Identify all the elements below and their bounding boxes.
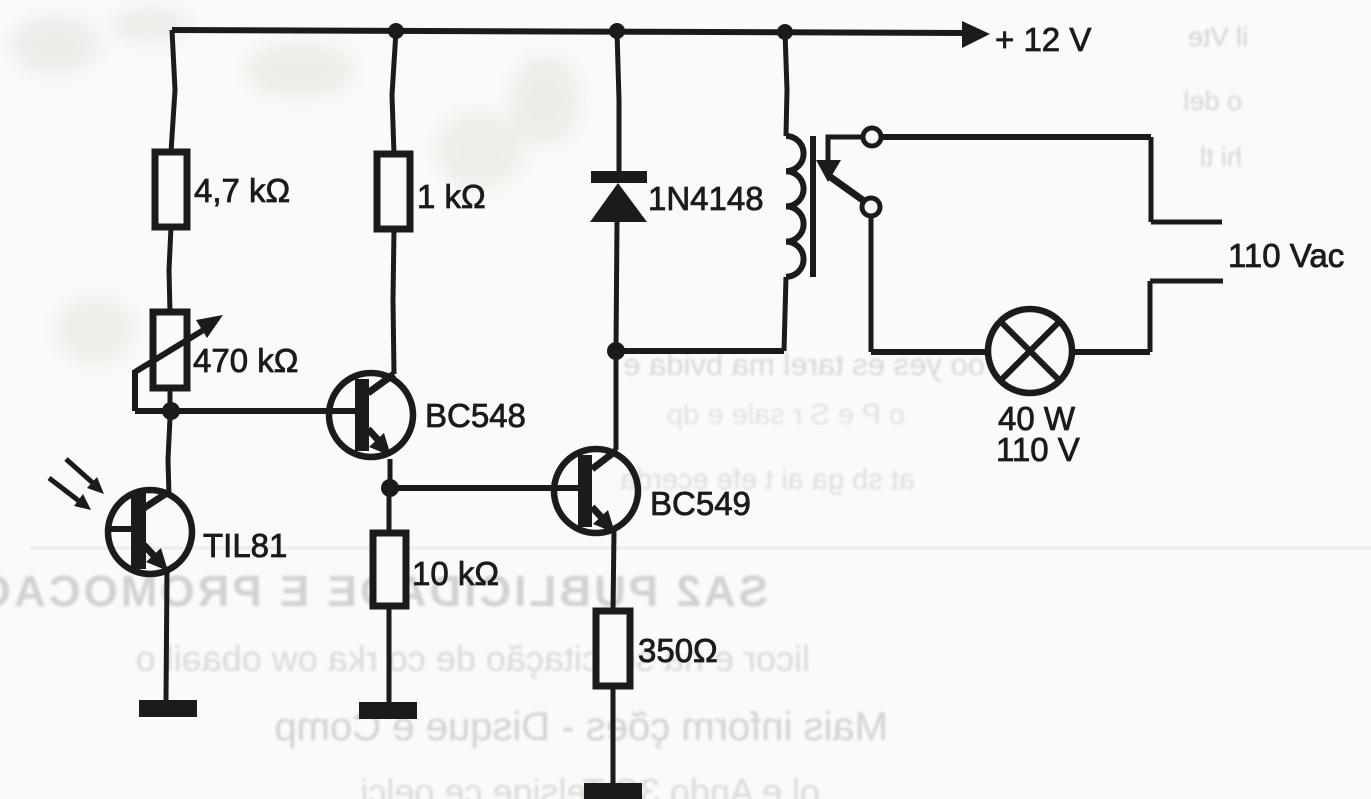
node junction rail/D1 [609, 23, 625, 39]
wire rail to relay coil [785, 32, 787, 136]
wire contact NO to right [881, 134, 1151, 140]
resistor R3 10k [373, 533, 406, 606]
wire relay coil to node C wire [784, 277, 786, 351]
svg-text:110 Vac: 110 Vac [1228, 237, 1344, 274]
wire D1 to node C [616, 222, 617, 351]
svg-text:o del: o del [1183, 86, 1242, 116]
resistor R2 1k [377, 154, 410, 229]
wire 110Vac upper terminal [1151, 220, 1222, 225]
resistor R4 350 [596, 611, 630, 686]
wire Q3 emitter to R4 [613, 531, 614, 611]
ground (R4) [584, 783, 642, 799]
relay K1 contact NO [863, 128, 881, 146]
resistor R1 4,7k [155, 152, 187, 227]
svg-text:il Vte: il Vte [1188, 22, 1248, 52]
svg-text:+ 12 V: + 12 V [995, 21, 1091, 58]
svg-text:BC549: BC549 [650, 485, 751, 522]
svg-text:110 V: 110 V [996, 431, 1080, 468]
svg-text:BC548: BC548 [425, 397, 526, 434]
wire node C to relay coil corner [616, 348, 784, 354]
wire to lamp [871, 349, 986, 355]
svg-text:4,7 kΩ: 4,7 kΩ [194, 172, 290, 209]
wire contact common down [869, 216, 874, 352]
svg-text:10 kΩ: 10 kΩ [412, 555, 499, 592]
node junction rail/relay coil [777, 24, 793, 40]
svg-text:1 kΩ: 1 kΩ [417, 178, 486, 215]
node junction rail/R2 [388, 23, 404, 39]
svg-text:TIL81: TIL81 [203, 527, 287, 564]
node C junction dot [607, 342, 625, 360]
+12V arrow terminal [962, 21, 990, 48]
wire node B to R3 [387, 494, 392, 533]
wire Q1 emitter to ground [166, 572, 167, 700]
svg-text:470 kΩ: 470 kΩ [193, 342, 298, 379]
wire right side up [1148, 281, 1153, 352]
node B junction dot [381, 479, 399, 497]
potentiometer P1 470k (rheostat) [135, 312, 223, 411]
wire rail to R2 [392, 31, 396, 154]
diode D1 1N4148 [590, 171, 647, 222]
node A junction dot [162, 402, 180, 420]
wire +12V supply rail [172, 30, 965, 33]
wire R4 to ground [611, 686, 616, 783]
wire R1 to P1 [169, 227, 171, 312]
relay K1 armature arm [816, 137, 864, 201]
wire 110Vac lower terminal [1150, 279, 1223, 284]
wire right side down [1149, 137, 1154, 222]
ground (Q1) [139, 700, 197, 717]
svg-text:hi tl: hi tl [1200, 142, 1242, 172]
wire rail to R1 [171, 30, 175, 152]
ground (R3) [359, 702, 417, 719]
wire Q2 emitter to node B [388, 459, 393, 488]
relay K1 core bar [810, 136, 816, 277]
relay K1 coil [786, 136, 804, 277]
svg-text:1N4148: 1N4148 [648, 180, 764, 217]
wire node A to Q2 base [135, 408, 356, 414]
lamp L1 [988, 309, 1072, 393]
transistor Q2 BC548 [329, 373, 413, 457]
wire node A to Q1 collector [168, 418, 170, 496]
wire R2 to Q2 collector [393, 229, 394, 374]
wire rail to D1 [617, 31, 619, 171]
svg-text:o P e S r sale e dp: o P e S r sale e dp [667, 399, 905, 431]
wire node B to Q3 base [390, 485, 578, 491]
relay K1 contact common [862, 198, 880, 216]
wire lamp to right [1074, 349, 1150, 355]
svg-text:350Ω: 350Ω [638, 632, 718, 669]
wire P1 bottom to node A [168, 388, 173, 411]
wire node C to Q3 collector [614, 351, 619, 450]
transistor Q3 BC549 [554, 449, 638, 533]
phototransistor Q1 TIL81 [49, 459, 192, 574]
wire R3 to ground [387, 606, 392, 702]
